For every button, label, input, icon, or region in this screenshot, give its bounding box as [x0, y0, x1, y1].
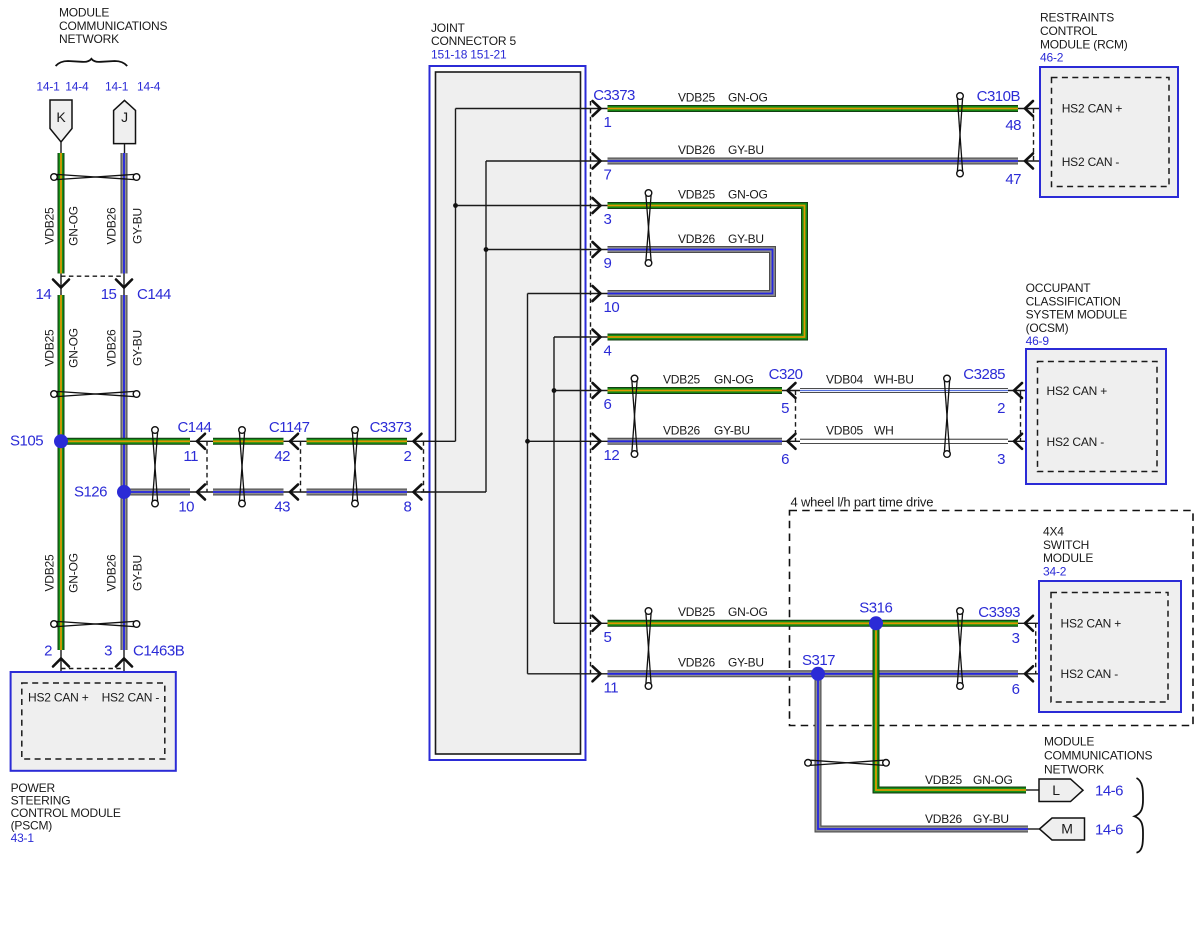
svg-text:VDB26: VDB26 [678, 656, 716, 670]
svg-text:C3373: C3373 [593, 87, 635, 104]
wire VDB25 GN-OG C1147 to C3373 pin 2 [307, 438, 408, 445]
svg-text:C320: C320 [769, 366, 803, 383]
svg-text:GY-BU: GY-BU [728, 656, 764, 670]
svg-text:VDB25: VDB25 [663, 373, 701, 387]
svg-text:VDB25: VDB25 [678, 91, 716, 105]
svg-text:GN-OG: GN-OG [973, 773, 1013, 787]
svg-text:MODULE: MODULE [1043, 551, 1093, 565]
svg-text:2: 2 [403, 448, 411, 465]
off-page connector L [1026, 789, 1039, 791]
svg-text:L: L [1052, 782, 1060, 798]
svg-text:C310B: C310B [977, 88, 1021, 105]
svg-text:COMMUNICATIONS: COMMUNICATIONS [59, 19, 168, 33]
svg-text:VDB26: VDB26 [663, 423, 701, 437]
svg-text:1: 1 [604, 114, 612, 131]
wire VDB25 GN-OG C144 to C1147 pin 42 [213, 438, 284, 445]
svg-text:SWITCH: SWITCH [1043, 538, 1089, 552]
svg-text:S316: S316 [859, 600, 892, 617]
svg-text:GY-BU: GY-BU [130, 208, 144, 244]
twisted pair symbol S105 run 3 [352, 427, 359, 434]
module box OCCUPANT CLASSIFICATION SYSTEM MODULE OCSM [1026, 349, 1166, 484]
svg-text:46-2: 46-2 [1040, 51, 1064, 65]
junction on bus A at pin 3 [453, 203, 458, 208]
wire VDB26 GY-BU vertical segment J to C144 [121, 153, 128, 274]
svg-text:3: 3 [604, 211, 612, 228]
svg-text:VDB26: VDB26 [104, 207, 118, 245]
svg-text:WH-BU: WH-BU [874, 373, 914, 387]
in-line connector C144 pins 14 and 15 [61, 275, 124, 277]
svg-text:43-1: 43-1 [11, 831, 35, 845]
svg-text:14-1: 14-1 [36, 79, 60, 93]
twisted pair symbol mid left pair [51, 391, 58, 398]
svg-text:HS2 CAN +: HS2 CAN + [1061, 617, 1122, 631]
svg-text:4: 4 [604, 343, 612, 360]
svg-text:HS2 CAN +: HS2 CAN + [1047, 384, 1108, 398]
svg-text:HS2 CAN -: HS2 CAN - [1061, 667, 1119, 681]
svg-text:2: 2 [44, 643, 52, 660]
twisted pair symbol S105 run 1 [152, 427, 159, 434]
twisted pair symbol loop pair [645, 190, 652, 197]
twisted pair symbol S105 run 2 [239, 427, 246, 434]
svg-text:VDB26: VDB26 [104, 329, 118, 367]
junction on bus C at pin 12 [525, 439, 530, 444]
svg-text:5: 5 [781, 400, 789, 417]
wire VDB25 GN-OG S316 drop to connector L [876, 623, 1026, 790]
module box 4X4 SWITCH MODULE [1039, 581, 1181, 712]
svg-text:GY-BU: GY-BU [714, 423, 750, 437]
svg-text:C3285: C3285 [963, 366, 1005, 383]
svg-text:NETWORK: NETWORK [59, 32, 119, 46]
joint connector internal bus D pins 4-6-5 [553, 337, 555, 623]
svg-text:3: 3 [1012, 630, 1020, 647]
svg-text:HS2 CAN +: HS2 CAN + [28, 691, 89, 705]
svg-text:JOINT: JOINT [431, 21, 466, 35]
svg-text:14-1: 14-1 [105, 79, 129, 93]
wire VDB26 GY-BU vertical segment C144 to S126 and below [121, 295, 128, 650]
svg-text:14-4: 14-4 [65, 79, 89, 93]
brace right of L and M [1135, 778, 1144, 853]
wire VDB25 GN-OG pin 5 to C3393 pin 3 [608, 620, 1019, 627]
wire VDB25 GN-OG loop pin 3 to pin 4 [608, 206, 805, 338]
svg-text:4X4: 4X4 [1043, 525, 1064, 539]
wire VDB26 GY-BU pin 11 to C3393 pin 6 [608, 670, 1019, 677]
svg-text:MODULE (RCM): MODULE (RCM) [1040, 37, 1128, 51]
twisted pair symbol 4X4 right side [957, 608, 964, 615]
svg-text:CONNECTOR 5: CONNECTOR 5 [431, 34, 516, 48]
twisted pair symbol OCSM right side [944, 375, 951, 382]
svg-text:GN-OG: GN-OG [66, 328, 80, 368]
svg-text:GN-OG: GN-OG [66, 553, 80, 593]
svg-text:K: K [56, 109, 66, 125]
svg-text:HS2 CAN -: HS2 CAN - [1047, 435, 1105, 449]
svg-text:CLASSIFICATION: CLASSIFICATION [1026, 294, 1121, 308]
svg-text:14: 14 [36, 286, 52, 303]
wire VDB26 GY-BU S317 drop to connector M [818, 674, 1028, 829]
svg-text:S317: S317 [802, 652, 835, 669]
svg-text:34-2: 34-2 [1043, 564, 1067, 578]
svg-text:11: 11 [183, 448, 198, 465]
wire VDB05 WH C320 to C3285 pin 3 [800, 439, 1008, 444]
svg-text:S126: S126 [74, 483, 107, 500]
svg-text:5: 5 [604, 629, 612, 646]
twisted pair symbol 4X4 joint side [645, 608, 652, 615]
module box RESTRAINTS CONTROL MODULE RCM [1040, 67, 1178, 197]
splice S316 [869, 616, 883, 630]
svg-text:(OCSM): (OCSM) [1026, 321, 1069, 335]
svg-text:VDB25: VDB25 [678, 605, 716, 619]
svg-text:MODULE: MODULE [1044, 735, 1094, 749]
svg-text:14-4: 14-4 [137, 79, 161, 93]
svg-text:HS2 CAN -: HS2 CAN - [1062, 155, 1120, 169]
junction on bus D at pin 6 [552, 388, 557, 393]
svg-text:C144: C144 [177, 419, 211, 436]
svg-text:C1463B: C1463B [133, 643, 185, 660]
svg-text:6: 6 [781, 451, 789, 468]
svg-text:VDB25: VDB25 [925, 773, 963, 787]
connector C3285 pins 2 / 3 [1008, 390, 1038, 392]
svg-text:HS2 CAN +: HS2 CAN + [1062, 102, 1123, 116]
svg-text:OCCUPANT: OCCUPANT [1026, 281, 1092, 295]
svg-text:11: 11 [604, 679, 619, 696]
svg-text:SYSTEM MODULE: SYSTEM MODULE [1026, 308, 1128, 322]
module box POWER STEERING CONTROL MODULE PSCM [11, 672, 176, 771]
svg-text:GY-BU: GY-BU [728, 232, 764, 246]
svg-text:151-18 151-21: 151-18 151-21 [431, 47, 507, 61]
wire VDB26 GY-BU C1147 to C3373 pin 8 [307, 489, 408, 496]
wire VDB25 GN-OG S105 to C144 pin 11 [61, 438, 190, 445]
svg-text:C144: C144 [137, 286, 171, 303]
wire VDB25 GN-OG pin 6 to C320 pin 5 [608, 387, 783, 394]
svg-text:C3393: C3393 [978, 604, 1020, 621]
svg-text:M: M [1061, 821, 1072, 837]
off-page connector J [114, 100, 136, 143]
in-line connector C144 pins 11 / 10 [190, 440, 213, 442]
connector C1463B pins 2 / 3 [60, 650, 62, 684]
svg-text:GY-BU: GY-BU [130, 555, 144, 591]
svg-text:42: 42 [274, 448, 290, 465]
off-page connector M [1028, 828, 1040, 830]
twisted pair symbol RCM run [957, 93, 964, 100]
svg-text:WH: WH [874, 423, 894, 437]
svg-text:GN-OG: GN-OG [728, 188, 768, 202]
svg-text:7: 7 [604, 167, 612, 184]
lead from K [60, 142, 62, 153]
in-line connector C1147 pins 42 / 43 [284, 440, 307, 442]
twisted pair symbol below K and J [51, 174, 58, 181]
twisted pair symbol OCSM joint side [631, 375, 638, 382]
splice S317 [811, 667, 825, 681]
svg-text:12: 12 [604, 447, 620, 464]
brace over connectors K and J [56, 59, 128, 66]
svg-text:VDB26: VDB26 [925, 812, 963, 826]
wire VDB26 GY-BU C144 to C1147 pin 43 [213, 489, 284, 496]
splice S105 [54, 434, 68, 448]
connector C3393 pins 3 / 6 [1018, 622, 1051, 624]
svg-text:HS2 CAN -: HS2 CAN - [102, 691, 160, 705]
wire pin 2 exit to bus A [421, 440, 456, 442]
svg-text:VDB25: VDB25 [42, 207, 56, 245]
svg-text:VDB25: VDB25 [42, 329, 56, 367]
joint connector 5 box [430, 66, 586, 760]
svg-text:43: 43 [274, 499, 290, 516]
wire VDB26 GY-BU S126 to C144 pin 10 [124, 489, 190, 496]
wire pin 8 exit to bus B [421, 491, 486, 493]
in-line connector C320 pins 5 / 6 [782, 390, 800, 392]
svg-text:4 wheel l/h part time drive: 4 wheel l/h part time drive [791, 495, 934, 510]
joint connector right-side pin arrows [593, 101, 601, 116]
joint connector internal bus C pins 10-12-11 [527, 294, 529, 674]
svg-text:14-6: 14-6 [1095, 822, 1123, 839]
svg-text:VDB25: VDB25 [42, 554, 56, 592]
joint connector internal bus B pins 7-9-8 [485, 161, 487, 492]
connector C310B pins 48 / 47 [1018, 108, 1052, 110]
svg-text:S105: S105 [10, 433, 43, 450]
svg-text:6: 6 [604, 396, 612, 413]
svg-text:VDB26: VDB26 [104, 554, 118, 592]
wire VDB25 GN-OG pin 1 to C310B pin 48 [608, 105, 1019, 112]
svg-text:VDB04: VDB04 [826, 373, 864, 387]
svg-text:GY-BU: GY-BU [728, 143, 764, 157]
svg-text:GN-OG: GN-OG [714, 373, 754, 387]
wire VDB25 GN-OG vertical segment C144 to S105 and below [58, 295, 65, 650]
svg-text:C1147: C1147 [269, 419, 310, 436]
svg-text:GN-OG: GN-OG [728, 91, 768, 105]
svg-text:MODULE: MODULE [59, 6, 109, 20]
svg-text:6: 6 [1012, 681, 1020, 698]
svg-text:C3373: C3373 [370, 419, 412, 436]
svg-text:NETWORK: NETWORK [1044, 763, 1104, 777]
svg-text:J: J [121, 109, 128, 125]
svg-text:14-6: 14-6 [1095, 783, 1123, 800]
svg-text:46-9: 46-9 [1026, 334, 1050, 348]
svg-text:9: 9 [604, 255, 612, 272]
svg-text:CONTROL: CONTROL [1040, 24, 1098, 38]
svg-text:GN-OG: GN-OG [66, 206, 80, 246]
svg-text:VDB05: VDB05 [826, 423, 864, 437]
svg-text:10: 10 [604, 299, 620, 316]
joint connector internal bus A pins 1-3-2 [455, 109, 457, 442]
svg-text:47: 47 [1005, 171, 1021, 188]
svg-text:COMMUNICATIONS: COMMUNICATIONS [1044, 749, 1153, 763]
svg-text:48: 48 [1005, 117, 1021, 134]
svg-text:GY-BU: GY-BU [973, 812, 1009, 826]
svg-text:RESTRAINTS: RESTRAINTS [1040, 11, 1114, 25]
off-page connector K [50, 100, 72, 142]
lead from J [124, 144, 126, 153]
svg-text:VDB25: VDB25 [678, 188, 716, 202]
wire VDB26 GY-BU loop pin 9 to pin 10 [608, 250, 773, 294]
connector C3373 pins 2 / 8 left side of joint connector [407, 440, 456, 442]
dashed option box 4 wheel l/h part time drive [790, 511, 1194, 726]
svg-text:10: 10 [178, 499, 194, 516]
splice S126 [117, 485, 131, 499]
twisted pair symbol S316 S317 drops [805, 760, 812, 767]
svg-text:VDB26: VDB26 [678, 232, 716, 246]
connector boundary dashed line C3373 [590, 101, 592, 676]
svg-text:GY-BU: GY-BU [130, 330, 144, 366]
wire VDB25 GN-OG vertical segment K to C144 [58, 153, 65, 274]
svg-text:15: 15 [101, 286, 117, 303]
svg-text:8: 8 [403, 499, 411, 516]
svg-text:VDB26: VDB26 [678, 143, 716, 157]
svg-text:3: 3 [104, 643, 112, 660]
svg-text:3: 3 [997, 451, 1005, 468]
wire VDB26 GY-BU pin 7 to C310B pin 47 [608, 158, 1019, 165]
wire VDB04 WH-BU C320 to C3285 pin 2 [800, 388, 1008, 393]
svg-text:GN-OG: GN-OG [728, 605, 768, 619]
wire VDB26 GY-BU pin 12 to C320 pin 6 [608, 438, 783, 445]
svg-text:2: 2 [997, 400, 1005, 417]
twisted pair symbol above PSCM [51, 621, 58, 628]
junction on bus B at pin 9 [484, 247, 489, 252]
